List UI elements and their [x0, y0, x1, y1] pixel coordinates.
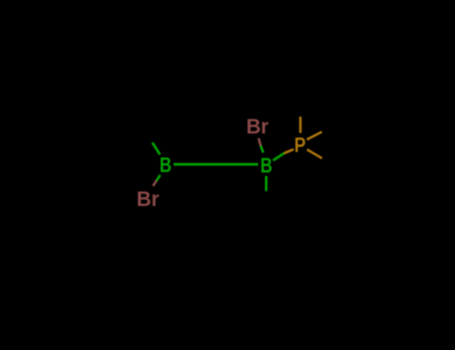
bond B2-Br2 green half [261, 146, 264, 153]
bond B2-P orange half [284, 149, 293, 153]
bond B1-Br1 brown half [153, 181, 156, 186]
bond B1-CH3 up-left [152, 143, 160, 155]
bond B2-CH3 down [265, 176, 268, 191]
svg-text:Br: Br [246, 114, 269, 138]
bond B1-B2 [174, 163, 259, 166]
bond B2-Br2 brown half [259, 138, 261, 146]
svg-text:B: B [160, 153, 172, 177]
bond B1-Br1 green half [156, 175, 160, 181]
bond P-CH3 up-right [307, 132, 322, 140]
svg-text:P: P [294, 133, 306, 157]
bond B2-P green half [273, 153, 284, 160]
bond P-CH3 down-right [307, 149, 322, 158]
bond P-CH3 up [299, 117, 302, 133]
svg-text:B: B [260, 154, 272, 178]
svg-text:Br: Br [137, 187, 160, 211]
